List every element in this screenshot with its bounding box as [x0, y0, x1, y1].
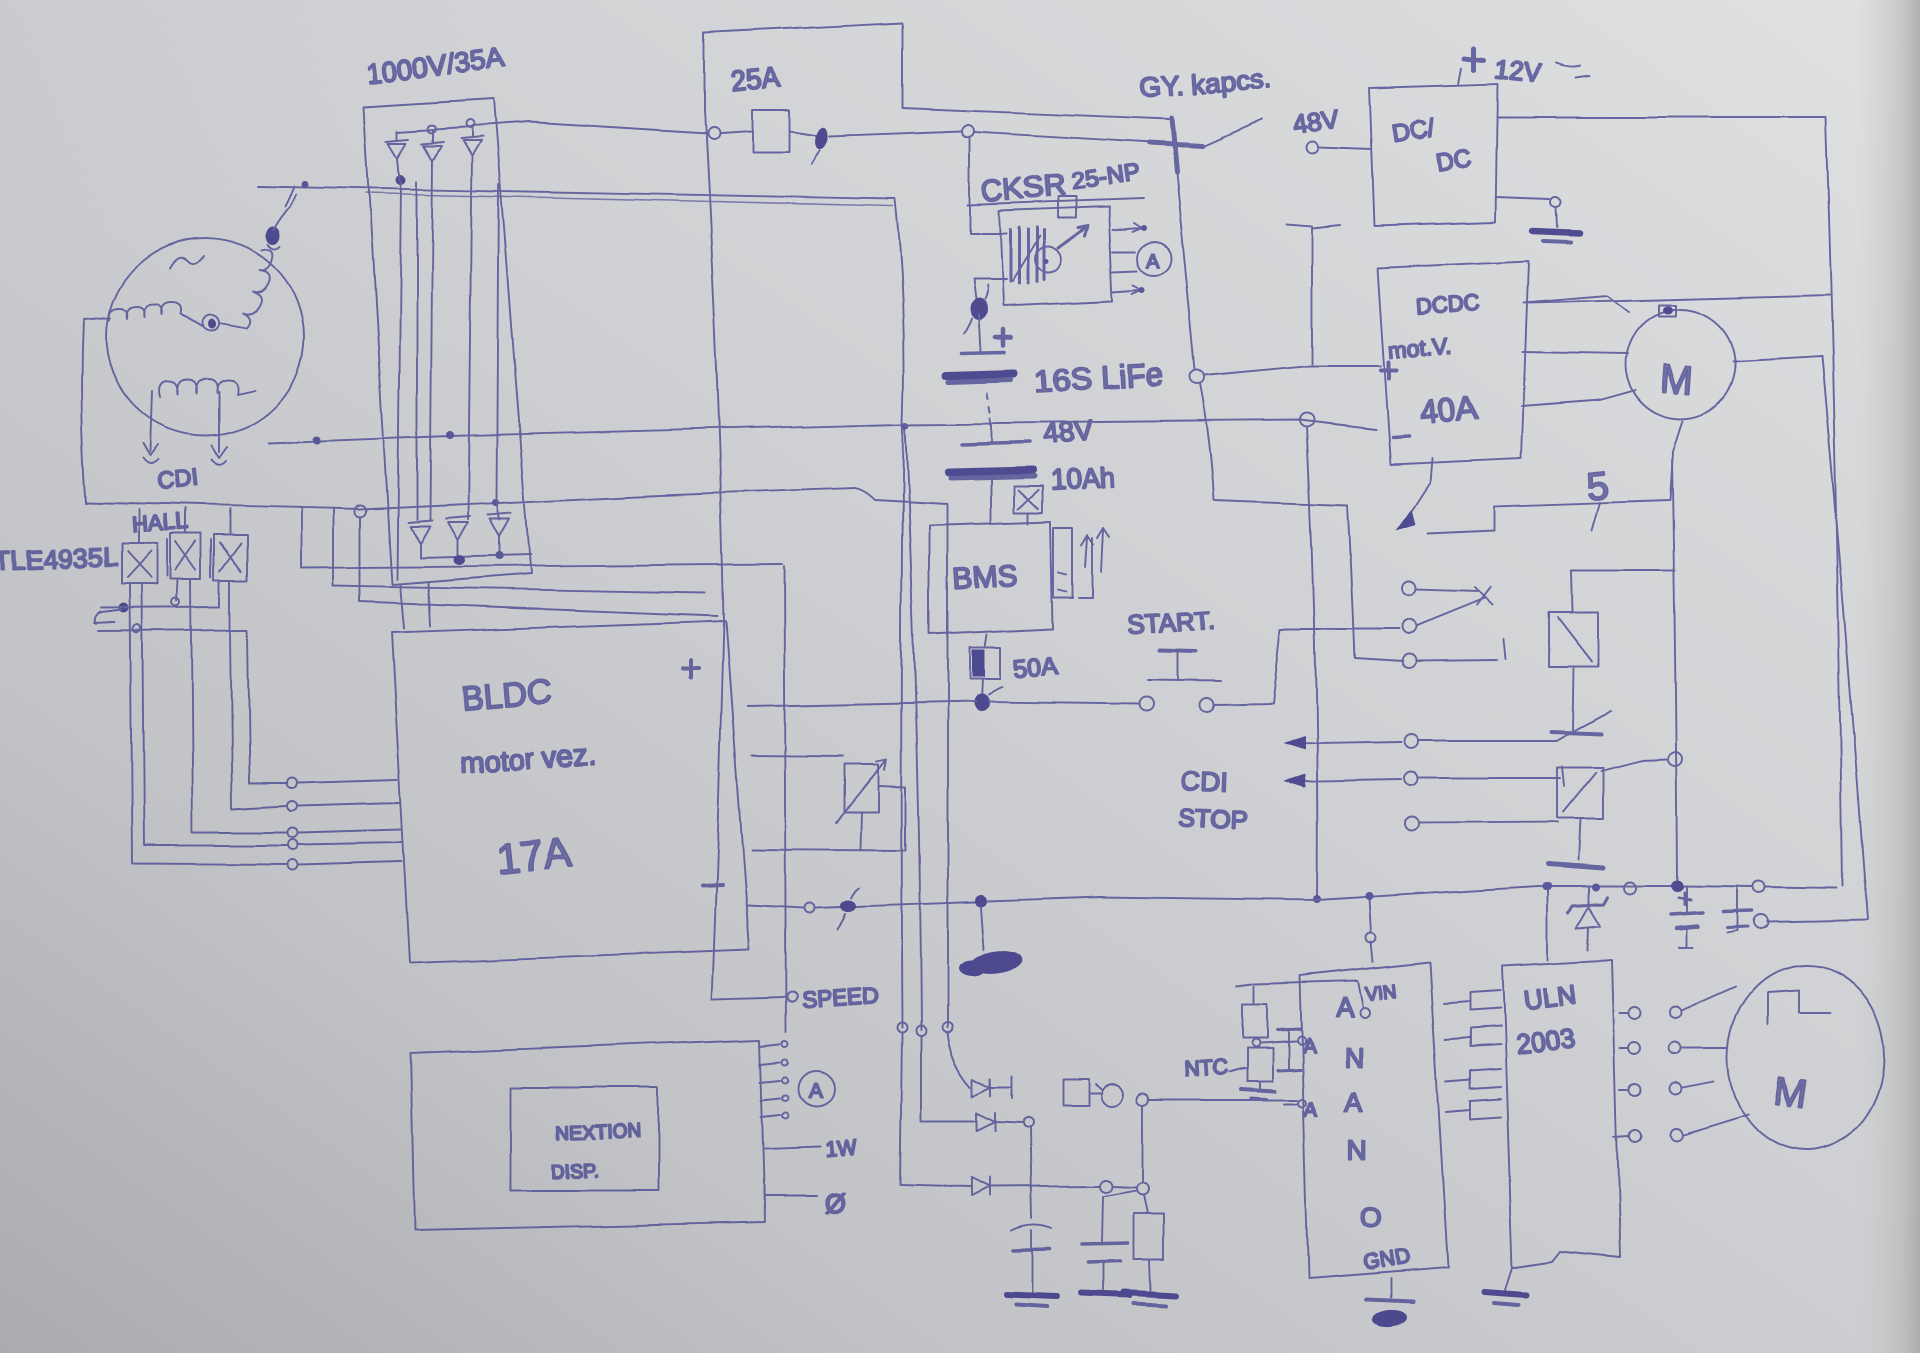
wire 25A feed	[472, 122, 752, 133]
node phase2 connector	[354, 505, 366, 517]
hall sensor U2	[171, 534, 201, 579]
wire 1W	[765, 1148, 820, 1150]
fuse F2 50A	[969, 648, 1000, 679]
diode D1	[387, 131, 409, 180]
wire phase1 to top bus	[285, 186, 294, 206]
wire CDI stems with arrows	[143, 392, 158, 464]
wire minus rail long	[268, 420, 1375, 443]
ground hall	[119, 603, 129, 613]
wire fuse to node	[830, 131, 962, 136]
wire vertical D to bottom bus	[1307, 427, 1317, 901]
diode D3	[461, 127, 483, 519]
alternator star point node	[203, 315, 219, 331]
resistor R1	[1242, 1004, 1267, 1038]
capacitor C2	[1102, 1190, 1137, 1242]
link NANO-ULN 4	[1446, 1099, 1500, 1119]
wire hall top stems	[139, 509, 230, 544]
node junction J1	[1137, 1094, 1149, 1106]
svg-text:DISP.: DISP.	[550, 1160, 598, 1183]
battery ink blob	[969, 299, 987, 321]
diode D8	[977, 1113, 1022, 1131]
connector row A to CDI	[1292, 710, 1610, 744]
wire phase2 left loop down	[82, 318, 110, 502]
svg-text:16S LiFe: 16S LiFe	[1034, 356, 1164, 399]
wire Vb tail to D8	[921, 1036, 975, 1121]
svg-text:48V: 48V	[1042, 415, 1095, 450]
fuse F1 25A	[752, 110, 789, 152]
ULN output row 1	[1620, 986, 1736, 1013]
ULN output row 4	[1614, 1114, 1748, 1136]
BMS balance arrows	[1081, 535, 1093, 567]
diode D9	[971, 1178, 1100, 1196]
sensor primary coil	[970, 206, 1006, 305]
wire stub to DC/DC bottom	[1286, 224, 1340, 364]
svg-text:STOP: STOP	[1179, 804, 1248, 834]
wire M1 return	[1428, 421, 1683, 533]
wire main plus run	[748, 702, 1140, 707]
svg-text:25A: 25A	[729, 62, 782, 98]
switch GY cross	[1171, 118, 1176, 172]
switch blob	[789, 131, 816, 135]
MCU NANO box	[1300, 962, 1448, 1279]
ammeter A2	[798, 1071, 834, 1107]
DCDC motor converter U6	[1377, 261, 1528, 464]
wire node to GY cross	[974, 132, 1160, 143]
NEXTION pins	[760, 1044, 780, 1117]
motor M1	[1626, 309, 1736, 419]
battery plus	[995, 329, 1011, 345]
thermistor NTC	[1246, 1048, 1272, 1081]
svg-text:A: A	[1336, 992, 1354, 1022]
wire R1 to VIN	[1254, 981, 1363, 1006]
M1 top terminal	[1659, 305, 1676, 316]
wire Va tail to D9	[900, 1033, 971, 1187]
svg-text:N: N	[1344, 1041, 1364, 1072]
wire hall leg 1	[130, 584, 286, 865]
wire BLDC throttle to pot	[752, 756, 843, 757]
BMS box	[929, 522, 1052, 635]
svg-text:A: A	[1147, 251, 1161, 273]
wire phase2 bottom run	[86, 488, 947, 509]
wire vertical Vb center	[905, 425, 921, 1030]
capacitor C1	[1012, 1224, 1052, 1230]
wire D8 to C1	[1030, 1128, 1032, 1218]
alternator tilde mark	[170, 256, 204, 268]
node junction J2	[1137, 1182, 1149, 1194]
wire relayA top tap	[1571, 570, 1675, 572]
wire U6 bottom pin arrow	[1408, 458, 1432, 516]
wire start to relay switch	[1213, 629, 1398, 705]
wire to switch row	[1348, 505, 1402, 661]
connector row B to CDI	[1292, 766, 1564, 786]
wire hall leg 4	[230, 630, 286, 809]
svg-text:CDI: CDI	[1181, 766, 1229, 798]
link NANO-ULN 1	[1444, 991, 1500, 1011]
wire M1 sense right	[1734, 357, 1822, 362]
wire rectifier bottom bus	[420, 555, 531, 558]
BMS side connector	[1053, 528, 1072, 598]
ground ULN	[1505, 1268, 1512, 1290]
svg-text:Ø: Ø	[826, 1188, 847, 1218]
alternator bottom coil	[159, 379, 255, 398]
potentiometer R2	[844, 765, 878, 812]
relay K1	[1549, 613, 1598, 667]
svg-text:40A: 40A	[1417, 389, 1479, 431]
ULN output row 3	[1620, 1082, 1714, 1090]
wire vertical Va center	[895, 199, 904, 1028]
svg-text:TLE4935L: TLE4935L	[0, 542, 119, 576]
ground NANO	[1389, 1279, 1391, 1298]
svg-text:VIN: VIN	[1364, 981, 1398, 1005]
diode D7	[973, 1076, 1012, 1098]
capacitor C3 on bus	[1685, 886, 1687, 912]
battery dotted link	[988, 392, 991, 424]
svg-text:A: A	[1344, 1087, 1363, 1118]
wire blob drop	[981, 907, 984, 950]
wire hall bus A	[102, 580, 220, 608]
wire right edge vertical	[1826, 117, 1843, 886]
wire ULN top stem	[1547, 888, 1549, 960]
svg-text:12V: 12V	[1493, 54, 1543, 89]
wire top box to cross	[902, 108, 1168, 119]
node minus rail dots	[313, 436, 321, 444]
wire L1 to middle	[300, 508, 786, 1032]
stepper M2	[1728, 965, 1884, 1151]
wire cross down to junction	[1174, 152, 1195, 371]
node bottom junction blob	[975, 895, 987, 907]
wire L2 to middle	[333, 508, 706, 593]
wire junction down right	[1200, 385, 1348, 505]
switch bank contacts	[1401, 582, 1415, 596]
link NANO-ULN 2	[1445, 1027, 1500, 1047]
connector row C	[1406, 817, 1420, 831]
NEXTION outer box	[411, 1040, 765, 1230]
ammeter A1	[1138, 242, 1172, 276]
battery cell bottom	[991, 424, 993, 441]
zener Z1 on bus	[1588, 886, 1590, 904]
wire V3 vertical	[1672, 460, 1677, 886]
diode D4	[408, 520, 432, 558]
ground G1	[1551, 197, 1561, 207]
switch GY lever	[1202, 120, 1262, 147]
hall sensor U1	[122, 544, 158, 584]
node bus dots	[1542, 882, 1550, 890]
ULN output row 2	[1620, 1047, 1729, 1049]
NEXTION display inner	[511, 1088, 658, 1190]
svg-text:BLDC: BLDC	[460, 672, 554, 718]
svg-text:DCDC: DCDC	[1415, 290, 1480, 319]
wire BMS to fuse 50A	[984, 635, 986, 648]
node battery junction	[1190, 371, 1204, 385]
svg-text:10Ah: 10Ah	[1049, 462, 1116, 496]
svg-text:CDI: CDI	[156, 465, 200, 496]
DC/DC converter U5	[1369, 84, 1498, 226]
wire diode top bus	[398, 127, 472, 132]
wire DC/DC out 12V right	[1498, 116, 1826, 118]
link NANO-ULN 3	[1446, 1069, 1500, 1089]
node bus dots	[302, 181, 309, 188]
wire U6 to M1 phase a	[1523, 296, 1629, 312]
diode D6	[488, 512, 512, 554]
wire battery to BMS	[990, 478, 992, 524]
wire junction to DCDC plus	[1204, 366, 1380, 376]
pin square	[1058, 197, 1076, 218]
wire phase drops into BLDC	[400, 583, 430, 629]
sensor right pins	[1113, 223, 1142, 294]
node connector	[707, 127, 719, 139]
current sensor U4 box	[999, 207, 1113, 306]
BLDC controller box	[392, 621, 750, 962]
svg-text:M: M	[1660, 357, 1696, 403]
svg-text:NTC: NTC	[1183, 1056, 1228, 1082]
diode D5	[446, 516, 470, 557]
fuse F3 small	[1014, 486, 1042, 513]
wire L3 to middle	[360, 518, 718, 616]
svg-text:O: O	[1360, 1203, 1382, 1234]
alternator right phase coil	[219, 249, 273, 328]
svg-text:BMS: BMS	[951, 560, 1018, 597]
svg-text:mot.V.: mot.V.	[1387, 333, 1453, 363]
symbol S2	[1101, 1085, 1123, 1107]
wire rectifier inner verticals	[397, 182, 401, 580]
driver ULN2003 box	[1502, 960, 1620, 1268]
svg-text:DC: DC	[1434, 145, 1474, 178]
node start contacts	[1140, 697, 1154, 711]
resistor R3	[1144, 1194, 1148, 1213]
wire BLDC minus to bottom bus	[748, 902, 975, 908]
alternator G1 body	[106, 238, 304, 436]
svg-text:NEXTION: NEXTION	[555, 1121, 640, 1145]
sensor arrow	[1058, 226, 1088, 248]
battery cell top	[978, 316, 980, 351]
node center column connectors	[897, 1023, 907, 1033]
svg-text:SPEED: SPEED	[801, 982, 881, 1013]
svg-text:17A: 17A	[494, 828, 573, 883]
label +12V	[1458, 68, 1461, 84]
svg-text:1W: 1W	[824, 1137, 858, 1163]
node connector circle on minus rail	[1300, 413, 1314, 427]
wire vertical Vc center	[946, 505, 948, 1027]
hall sensor U3	[214, 535, 247, 580]
svg-text:START.: START.	[1126, 604, 1215, 640]
alternator left phase coil	[109, 302, 204, 327]
node main blob	[973, 694, 989, 712]
capacitor C4 on bus	[1736, 886, 1738, 910]
wire to SPEED	[712, 997, 786, 999]
sensor dial circle	[1035, 247, 1061, 273]
svg-text:50A: 50A	[1012, 652, 1059, 684]
wire hall bus B	[99, 580, 247, 631]
wire mid right horizontal	[1528, 295, 1830, 303]
wire NANO top to bus	[1370, 898, 1374, 962]
wire hall leg 2	[142, 584, 287, 846]
svg-text:5: 5	[1584, 463, 1611, 509]
wire NTC to NANO A	[1259, 1041, 1296, 1043]
wire hall leg 5	[247, 630, 285, 783]
top box	[704, 23, 902, 110]
svg-text:M: M	[1771, 1069, 1810, 1117]
rectifier box	[364, 99, 531, 585]
wire phase1 top bus	[258, 186, 895, 199]
wire U6 to M1 phase c	[1521, 390, 1636, 406]
fuse symbol S1	[1062, 1080, 1102, 1106]
wire hall leg 3	[177, 579, 287, 833]
diode D2	[422, 130, 444, 519]
wire Vc tail to D7	[947, 1032, 971, 1086]
wire CKSR drop	[969, 137, 971, 204]
wire bottom bus long	[987, 886, 1837, 901]
wire BLDC aux	[752, 849, 905, 850]
svg-text:N: N	[1347, 1135, 1367, 1166]
BLDC hall input pins	[286, 778, 296, 788]
wire DC/DC gnd stub	[1496, 197, 1550, 199]
node 48V connector	[1306, 142, 1318, 154]
capacitor C5 at NANO	[1277, 1029, 1300, 1030]
alternator top terminal blob	[266, 226, 280, 244]
wire CKSR top bus	[968, 199, 1143, 205]
relay K2	[1557, 767, 1603, 818]
wire long vertical from top box	[704, 110, 724, 999]
wire J1 to NANO A	[1149, 1099, 1297, 1101]
wire phi	[765, 1195, 818, 1197]
svg-text:A: A	[808, 1080, 822, 1103]
wire U6 to M1 phase b	[1522, 352, 1628, 354]
node R1 bottom	[1251, 1039, 1259, 1047]
